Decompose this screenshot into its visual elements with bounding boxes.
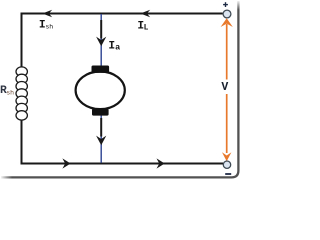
svg-text:V: V [221, 81, 228, 94]
svg-text:Ia: Ia [108, 40, 120, 52]
